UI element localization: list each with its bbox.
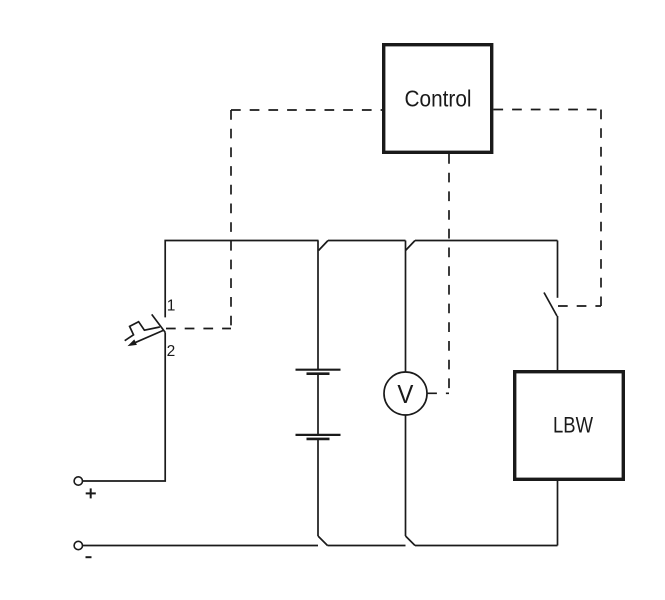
switch blade right xyxy=(544,293,557,317)
wire breaker to plus terminal xyxy=(83,332,166,481)
dashed control line right vertical xyxy=(600,110,602,307)
dashed control line breaker horizontal xyxy=(166,328,231,330)
control unit box Control xyxy=(384,45,492,153)
battery cell 1 long plate xyxy=(296,369,341,371)
battery wire middle xyxy=(317,374,319,435)
circuit breaker latch xyxy=(125,322,160,341)
label minus sign xyxy=(86,556,92,558)
wire top bus segment 3 xyxy=(415,240,558,242)
circuit breaker trip arrow xyxy=(132,331,164,345)
svg-text:Control: Control xyxy=(405,85,472,111)
dashed control line to voltmeter xyxy=(427,392,449,394)
battery wire lower xyxy=(317,439,319,536)
circuit breaker blade xyxy=(152,314,166,332)
svg-text:1: 1 xyxy=(167,297,176,314)
junction diagonal top battery node xyxy=(319,241,329,251)
dashed control line to switch xyxy=(558,305,601,307)
wire right branch upper xyxy=(557,241,559,298)
voltmeter wire upper xyxy=(405,241,407,373)
battery cell 2 long plate xyxy=(296,434,341,436)
junction diagonal bottom voltmeter node xyxy=(406,536,416,546)
dashed control line left vertical xyxy=(230,110,232,329)
wire bottom bus segment 1 xyxy=(83,545,319,547)
wire top bus segment 2 xyxy=(328,240,406,242)
junction diagonal top voltmeter node xyxy=(406,241,416,251)
terminal plus xyxy=(74,477,82,485)
battery cell 2 short plate xyxy=(307,438,330,441)
wire bottom bus segment 2 xyxy=(328,545,406,547)
svg-text:2: 2 xyxy=(167,343,176,360)
wire switch to LBW xyxy=(557,316,559,370)
dashed control line left horizontal xyxy=(231,109,382,111)
voltmeter wire lower xyxy=(405,415,407,536)
voltmeter circle xyxy=(384,372,427,415)
terminal minus xyxy=(74,541,82,549)
junction diagonal bottom battery node xyxy=(318,536,328,546)
dashed control line right horizontal xyxy=(493,109,601,111)
wire bottom bus segment 3 xyxy=(415,545,558,547)
battery wire upper xyxy=(317,241,319,370)
wire LBW to bottom bus xyxy=(557,481,559,546)
svg-text:LBW: LBW xyxy=(553,413,594,438)
LBW box xyxy=(515,372,624,480)
wire top bus segment 1 xyxy=(165,241,318,318)
label plus sign xyxy=(86,488,96,498)
svg-text:V: V xyxy=(397,381,413,409)
dashed control line bottom vertical xyxy=(448,154,450,393)
battery cell 1 short plate xyxy=(307,372,330,375)
